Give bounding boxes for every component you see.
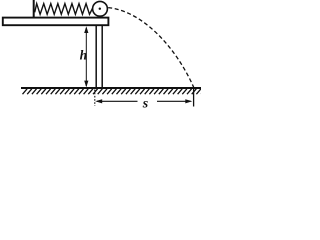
wall (33, 0, 35, 19)
svg-text:s: s (142, 96, 149, 111)
dimension s left arrow (97, 100, 138, 102)
table top (3, 18, 109, 26)
svg-text:h: h (80, 48, 88, 63)
dimension h bottom arrowhead (84, 81, 88, 88)
table leg (95, 25, 97, 88)
ground line (21, 87, 201, 89)
ball center dot (99, 8, 101, 10)
extension line left (below leg, dotted) (94, 90, 96, 107)
dimension h line (85, 28, 87, 86)
dimension h top arrowhead (84, 26, 88, 33)
ball (93, 1, 108, 16)
spring (35, 4, 93, 15)
dimension s right arrow (157, 100, 191, 102)
extension line right (landing) (193, 89, 195, 107)
ground hatching (23, 89, 206, 94)
trajectory (dashed parabola) (108, 8, 194, 88)
